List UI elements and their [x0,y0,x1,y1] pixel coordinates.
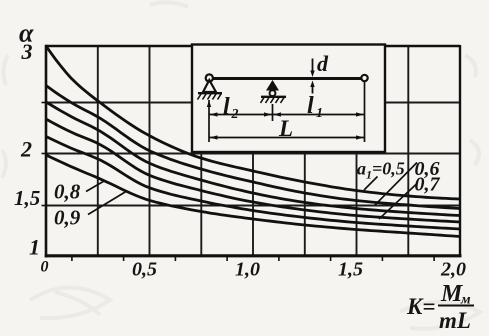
extension line left [208,100,210,142]
x-axis minor ticks [72,256,434,261]
curve 2 [46,86,460,209]
svg-text:=0,5: =0,5 [372,159,405,179]
svg-text:1,5: 1,5 [14,186,40,210]
svg-text:l: l [223,94,230,120]
leader a1=0,5 [364,177,378,191]
beam right end circle [361,75,367,81]
svg-text:K=: K= [406,294,435,319]
curve 3 [46,102,460,216]
middle support triangle [266,80,279,91]
svg-text:0,7: 0,7 [415,174,441,196]
svg-text:2,0: 2,0 [440,259,466,281]
leader 0,7 [379,184,417,220]
svg-text:3: 3 [21,39,33,64]
inset white box [192,45,385,153]
svg-text:mL: mL [439,308,471,333]
beam [209,77,366,80]
curve a1=0.5 (top) [46,46,460,199]
l2/l1 dimension line [209,114,365,116]
left support triangle [203,80,216,92]
d dimension line [312,59,314,74]
svg-text:1: 1 [316,106,323,121]
middle support roller circle [270,90,276,96]
leader 0,8 [86,181,105,192]
svg-text:0,9: 0,9 [54,206,81,230]
upward arrow on left extension [207,101,211,108]
left support pin circle [206,74,213,81]
curve 5 [46,137,460,230]
middle support hatch [261,98,285,104]
svg-text:a: a [357,159,366,179]
dim arrows l2 l1 [210,112,218,116]
extension line middle [272,104,274,121]
svg-text:2: 2 [231,107,239,122]
extension line right [364,82,366,142]
y-axis minor ticks [42,103,47,206]
svg-text:0: 0 [41,259,49,276]
curve 6 (bottom) [46,155,460,237]
svg-text:1,0: 1,0 [235,259,260,281]
plot frame [45,45,462,258]
middle support ground [261,96,286,98]
d arrows [310,71,314,78]
curve 4 [46,119,460,222]
leader 0,6 [375,163,417,206]
svg-text:d: d [317,51,329,76]
L dimension line [209,137,365,139]
left support hatch [198,94,222,100]
svg-text:0,5: 0,5 [132,259,157,281]
svg-text:1,5: 1,5 [338,259,363,281]
inset contents [198,59,368,143]
svg-text:1: 1 [29,235,40,260]
leader 0,9 [88,192,126,215]
left support ground [198,92,222,94]
svg-text:L: L [278,116,293,141]
svg-text:2: 2 [20,137,32,162]
svg-text:0,8: 0,8 [54,180,81,204]
svg-text:l: l [307,93,314,119]
